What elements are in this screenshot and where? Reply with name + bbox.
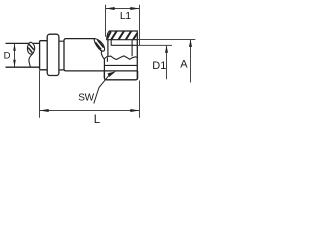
hose tube top outline (6, 42, 40, 44)
hose tube bottom outline (6, 66, 40, 68)
body break S-curve to nut wave (101, 50, 104, 59)
svg-text:L: L (94, 114, 101, 126)
dimension D1 extension line (137, 44, 172, 46)
nut hex base line (104, 64, 137, 66)
body break lens hatching (95, 40, 103, 50)
svg-text:D: D (4, 51, 11, 62)
nut upper hex left edge (107, 40, 109, 57)
nut hex corner line right (131, 40, 133, 57)
fitting body outline (64, 39, 137, 71)
neck groove (59, 41, 64, 70)
thread band (107, 31, 138, 40)
flange collar (47, 34, 59, 75)
dimension A extension line (137, 39, 195, 41)
svg-text:L1: L1 (120, 10, 131, 22)
dimension L extension line right (139, 81, 141, 118)
SW leader line with arrow (94, 76, 109, 104)
dimension L extension line left (39, 70, 41, 117)
dimension D line with arrows (14, 44, 16, 67)
nut bottom collar (104, 71, 137, 80)
dimension L1 line (106, 8, 140, 10)
nut lower left edge (103, 59, 105, 78)
svg-text:SW: SW (78, 92, 94, 103)
hose break S-curve (29, 53, 34, 67)
nut break tick below wave (106, 57, 108, 61)
dimension D1 line with arrow (166, 46, 168, 79)
dimension L line (40, 110, 140, 112)
dimension A line with arrow (190, 40, 192, 83)
nut hex chamfer corner left (110, 40, 112, 46)
svg-text:A: A (180, 59, 188, 71)
hose break lens hatching (28, 44, 34, 52)
nut break wave (104, 56, 137, 60)
nut chamfer flat line (111, 44, 138, 46)
nut right edge (136, 40, 138, 79)
svg-text:D1: D1 (152, 60, 166, 72)
sleeve end cap step (40, 41, 48, 70)
thread band hatching (107, 31, 137, 40)
body break lens (94, 39, 104, 52)
dimension L1 extension line right (139, 5, 141, 46)
dimension L1 extension line left (105, 5, 107, 37)
hose break lens (27, 42, 34, 54)
